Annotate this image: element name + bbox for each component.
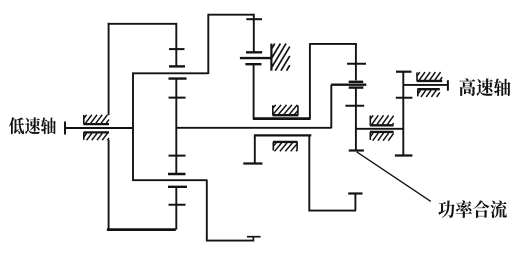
carrier housing left vertical: [108, 23, 110, 115]
output gear column vertical: [402, 72, 404, 156]
fixed wall hatch: [271, 44, 274, 50]
brake cap upper: [246, 51, 262, 53]
gear column on planet line: upper link: [175, 23, 177, 67]
clutch column upper vertical: [355, 43, 357, 80]
low-speed shaft segment 1: [64, 127, 134, 129]
clutch bottom cap: [349, 149, 364, 151]
carrier inner vertical: [132, 72, 134, 181]
high-speed shaft: [403, 84, 448, 86]
branch vertical lower: [206, 180, 208, 241]
output gear tick: [396, 97, 413, 99]
housing box right vertical: [309, 43, 311, 118]
gear column middle vertical: [175, 79, 177, 174]
gear cap at 174: [168, 173, 186, 175]
fixed wall border: [270, 44, 272, 71]
left bearing upper block: [84, 123, 110, 125]
lower T piece cap: [348, 192, 362, 194]
output gear top cap: [396, 71, 412, 73]
main shaft segment 2: [176, 127, 331, 129]
brake long bar to wall: [240, 57, 272, 59]
main shaft segment 3: [356, 128, 404, 130]
top shaft (input branch): [208, 14, 254, 16]
branch vertical upper: [207, 14, 209, 74]
lower housing left vertical: [254, 135, 256, 163]
gear tick at 155: [169, 155, 186, 157]
sun column lower vertical: [253, 64, 255, 119]
lower intermediate shaft: [133, 179, 208, 181]
gear tick at 205: [169, 204, 186, 206]
sun gear tick: [246, 18, 262, 20]
gear cap upper: [169, 65, 185, 67]
housing bearing lower: hatch block: [273, 141, 298, 143]
sun gear column vertical: [253, 14, 255, 53]
hollow shaft link vertical: [330, 85, 332, 129]
high-speed shaft end tick: [447, 80, 449, 91]
gear cap at 187: [168, 186, 187, 188]
bottom link horizontal: [207, 240, 254, 242]
clutch cap upper: [349, 81, 364, 83]
hs bearing lower block: [418, 88, 440, 90]
clutch tick upper: [347, 63, 366, 65]
hs bearing upper block: [417, 80, 443, 82]
gear tick upper: [169, 48, 185, 50]
output gear bottom cap: [395, 154, 413, 156]
lower housing box top: [254, 134, 311, 136]
clutch column lower vertical: [355, 88, 357, 151]
gear tick at 97: [169, 97, 186, 99]
housing box bottom (upper): [253, 117, 311, 120]
lower housing left cap: [243, 162, 262, 164]
upper intermediate shaft: [133, 72, 209, 74]
right bearing upper block: [370, 124, 394, 126]
carrier housing bottom horizontal: [107, 228, 176, 231]
brake cap lower: [245, 63, 261, 65]
right bearing lower block: [370, 131, 394, 133]
bottom link tick: [247, 236, 261, 238]
top horizontal to clutch column: [310, 43, 357, 45]
lower housing bottom horizontal: [308, 210, 356, 212]
lower T piece vertical: [354, 194, 356, 211]
power merge label 功率合流: [438, 200, 507, 218]
leader line to power-merge note: [357, 152, 431, 202]
gear column lower vertical: [175, 187, 177, 230]
bottom link step: [252, 237, 254, 242]
carrier housing top horizontal: [108, 23, 177, 25]
clutch long bar: [331, 83, 366, 85]
left bearing lower block: [84, 131, 110, 133]
low-speed shaft label 低速轴: [9, 117, 56, 134]
clutch tick lower: [345, 105, 364, 107]
high-speed shaft label 高速轴: [459, 78, 510, 96]
low-speed shaft end tick: [64, 122, 66, 135]
gear cap below mesh: [169, 77, 187, 79]
clutch cap lower: [349, 86, 364, 88]
housing bearing upper: hatch block: [273, 114, 299, 116]
lower housing right vertical: [308, 135, 310, 210]
